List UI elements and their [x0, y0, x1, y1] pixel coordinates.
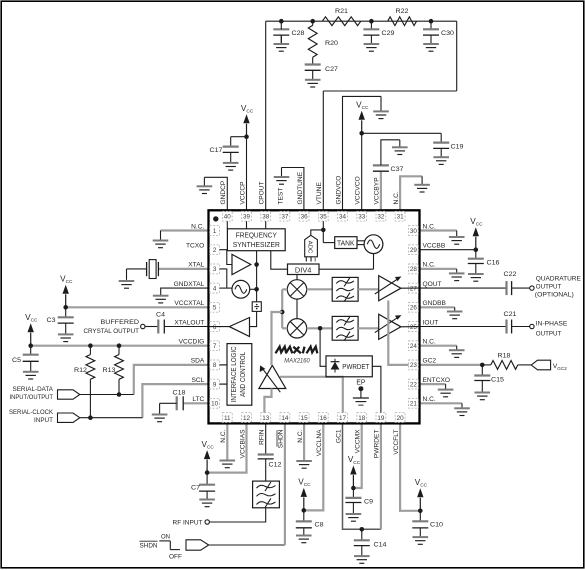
wire pin2 to buffer1 — [220, 250, 233, 265]
pin 17 name GC1 — [335, 429, 342, 443]
pin 34 name GNDVCO — [335, 176, 342, 205]
wire IOUT — [420, 326, 507, 328]
wire SCL — [142, 384, 208, 418]
ground — [449, 269, 465, 281]
svg-text:23: 23 — [410, 362, 418, 369]
ground — [152, 414, 168, 422]
pin 8 name SDA — [191, 358, 205, 365]
pin 40 name GNDCP — [220, 180, 227, 204]
pin 7 box — [210, 341, 220, 351]
resistor R12 — [74, 346, 95, 418]
capacitor C30 — [423, 21, 454, 37]
svg-text:1: 1 — [213, 228, 217, 235]
wire GC1 internal — [280, 377, 343, 413]
oscillator VCO — [364, 235, 383, 254]
pin 21 name N.C. — [423, 396, 436, 403]
block ADC — [305, 235, 318, 261]
wire PWRDET — [380, 423, 382, 529]
terminal QUADRATURE OUTPUT — [530, 276, 582, 299]
svg-text:24: 24 — [410, 343, 418, 350]
pin 1 indicator dot — [213, 216, 218, 221]
wire SDA — [134, 365, 209, 395]
capacitor C7 — [191, 473, 215, 492]
pin 35 name VTUNE — [316, 182, 323, 205]
svg-text:GNDTUNE: GNDTUNE — [297, 171, 304, 204]
svg-text:20: 20 — [397, 415, 405, 422]
pin 29 box — [409, 245, 419, 255]
svg-text:ENTCXO: ENTCXO — [423, 377, 450, 384]
ground — [274, 35, 290, 51]
svg-text:27: 27 — [410, 285, 418, 292]
svg-text:GC2: GC2 — [423, 358, 437, 365]
pin 15 name N.C. — [297, 429, 304, 442]
wire amp2 out — [401, 326, 420, 328]
node R13 top — [117, 343, 122, 348]
svg-text:N.C.: N.C. — [393, 191, 400, 204]
switch SHDN — [140, 534, 183, 561]
wire VCCBB — [420, 249, 476, 251]
pin 24 box — [409, 341, 419, 351]
svg-text:VCCBYP: VCCBYP — [374, 177, 381, 205]
terminal BUFFERED CRYSTAL OUTPUT — [84, 319, 146, 335]
wire buffer2 to pin6 — [209, 326, 230, 328]
wire to C19 — [362, 132, 442, 134]
svg-text:3: 3 — [213, 266, 217, 273]
pin 4 box — [210, 283, 220, 293]
svg-text:N.C.: N.C. — [191, 223, 204, 230]
svg-text:GC2: GC2 — [557, 366, 567, 371]
op-amp buffer2 XTALOUT — [229, 318, 249, 337]
svg-text:29: 29 — [410, 247, 418, 254]
pin 26 box — [409, 302, 419, 312]
svg-text:TCXO: TCXO — [186, 243, 204, 250]
pin 39 name VCCCP — [239, 181, 246, 205]
svg-text:10: 10 — [211, 401, 219, 408]
pin 33 box — [357, 211, 367, 221]
svg-text:OUTPUT: OUTPUT — [536, 284, 562, 291]
pin 20 name VCCFLT — [393, 430, 400, 455]
wire CPOUT loop top — [266, 20, 457, 22]
svg-text:VCCLNA: VCCLNA — [316, 429, 323, 456]
pin 9 name SCL — [191, 377, 204, 384]
pin 38 box — [261, 211, 271, 221]
capacitor C18 — [160, 390, 209, 414]
pin 11 name N.C. — [220, 429, 227, 442]
block INTERFACE LOGIC AND CONTROL — [227, 344, 252, 406]
mixer2 — [287, 319, 306, 338]
pin 27 box — [409, 283, 419, 293]
wire synth bus — [256, 251, 258, 302]
svg-text:VCCCP: VCCCP — [239, 181, 246, 205]
svg-text:C30: C30 — [441, 30, 454, 37]
pin 5 name VCCXTAL — [174, 300, 204, 307]
ground — [373, 96, 389, 118]
wire VCCMX — [353, 423, 361, 488]
svg-text:PWRDET: PWRDET — [374, 430, 381, 459]
pin 12 box — [242, 413, 252, 423]
svg-text:21: 21 — [410, 401, 418, 408]
amplifier VGA — [259, 365, 286, 392]
svg-text:INTERFACE LOGIC: INTERFACE LOGIC — [231, 346, 238, 402]
svg-text:IN-PHASE: IN-PHASE — [536, 321, 568, 328]
svg-text:34: 34 — [339, 214, 347, 221]
wire VTUNE vertical — [322, 91, 324, 210]
svg-text:17: 17 — [339, 415, 347, 422]
svg-text:C14: C14 — [374, 542, 387, 549]
wire pin40 stub — [226, 221, 228, 229]
ground — [475, 381, 491, 400]
svg-text:33: 33 — [358, 214, 366, 221]
pin 32 name VCCBYP — [374, 177, 381, 205]
ground — [274, 168, 290, 185]
capacitor C8 — [296, 510, 324, 528]
pin 9 box — [210, 379, 220, 389]
ground — [449, 346, 465, 358]
svg-text:VTUNE: VTUNE — [316, 182, 323, 205]
wire SHDN — [209, 423, 285, 545]
wire PWRDET to pin19 — [372, 366, 381, 412]
pin 8 box — [210, 360, 220, 370]
pin 23 name GC2 — [423, 358, 437, 365]
svg-text:8: 8 — [213, 362, 217, 369]
svg-text:39: 39 — [243, 214, 251, 221]
pin 19 box — [376, 413, 386, 423]
svg-text:C17: C17 — [210, 147, 223, 154]
svg-text:DIV4: DIV4 — [295, 267, 312, 274]
pin 25 name IOUT — [423, 319, 439, 326]
ground — [220, 460, 236, 468]
svg-text:GNDXTAL: GNDXTAL — [174, 281, 205, 288]
ground — [23, 361, 39, 379]
wire GNDTUNE — [282, 168, 304, 211]
pin 16 box — [318, 413, 328, 423]
wire DIV4 right — [319, 268, 374, 270]
filter2 bandpass — [332, 316, 358, 340]
svg-text:N.C.: N.C. — [297, 429, 304, 442]
pin 26 name GNDBB — [423, 300, 447, 307]
svg-text:GNDBB: GNDBB — [423, 300, 447, 307]
wire filter2 to amp2 — [358, 327, 379, 329]
wire pin4 to oscillator — [220, 287, 233, 289]
wire div to buffer2 — [250, 311, 257, 326]
pin 18 box — [357, 413, 367, 423]
ground — [364, 35, 380, 51]
pin 10 box — [210, 398, 220, 408]
svg-text:OUTPUT: OUTPUT — [536, 331, 562, 338]
crystal — [127, 260, 159, 279]
pin 3 name XTAL — [188, 262, 204, 269]
node C28 junction — [279, 19, 284, 24]
pin 1 box — [210, 226, 220, 236]
pin 34 box — [338, 211, 348, 221]
node R12 top — [88, 343, 93, 348]
power VCC at VCCVCO — [356, 101, 369, 136]
power VCC at VCCFLT — [415, 478, 428, 513]
ground — [346, 503, 362, 522]
pin 16 name VCCLNA — [316, 429, 323, 456]
wire to ADC — [311, 230, 324, 235]
svg-text:TANK: TANK — [337, 241, 355, 248]
svg-text:40: 40 — [224, 214, 232, 221]
divider DIV4 — [288, 264, 320, 275]
svg-text:C28: C28 — [292, 30, 305, 37]
wire filter1 to amp1 — [358, 288, 379, 290]
pin 22 name ENTCXO — [423, 377, 450, 384]
wire NC pin21 — [420, 402, 463, 404]
capacitor C4 — [145, 312, 209, 334]
wire VCCVCO — [361, 133, 363, 210]
svg-text:C21: C21 — [504, 311, 517, 318]
ground — [449, 231, 465, 245]
pin 12 name VCCBIAS — [239, 429, 246, 459]
wire QOUT — [420, 287, 507, 289]
wire pin39 stub — [246, 221, 248, 229]
svg-text:VCCDIG: VCCDIG — [179, 339, 205, 346]
svg-text:CRYSTAL OUTPUT: CRYSTAL OUTPUT — [84, 328, 140, 335]
pin 2 box — [210, 245, 220, 255]
wire GC1 — [343, 423, 381, 529]
pin 14 box — [280, 413, 290, 423]
ground EP — [353, 389, 369, 406]
svg-text:22: 22 — [410, 381, 418, 388]
svg-text:C7: C7 — [191, 485, 200, 492]
svg-text:38: 38 — [262, 214, 270, 221]
capacitor C28 — [273, 21, 304, 44]
svg-text:7: 7 — [213, 343, 217, 350]
svg-text:C18: C18 — [173, 390, 186, 397]
wire loop right edge — [456, 21, 458, 91]
svg-text:TEST: TEST — [278, 188, 285, 205]
node C14 junction — [360, 527, 365, 532]
svg-text:XTALOUT: XTALOUT — [174, 319, 204, 326]
svg-text:SERIAL-CLOCK: SERIAL-CLOCK — [9, 409, 53, 416]
svg-text:RFIN: RFIN — [259, 429, 266, 445]
wire pin3 stub — [220, 269, 227, 288]
pin 6 name XTALOUT — [174, 319, 204, 326]
wire NC pin31 — [400, 176, 422, 210]
ground — [433, 148, 449, 164]
pin 18 name VCCMX — [355, 429, 362, 453]
svg-text:35: 35 — [320, 214, 328, 221]
wire synth to DIV4 — [271, 251, 288, 270]
wire VCCCP — [246, 137, 248, 211]
wire tank to VCO — [357, 241, 364, 245]
pin 13 name RFIN — [259, 429, 266, 445]
svg-text:C16: C16 — [487, 260, 500, 267]
svg-text:31: 31 — [397, 214, 405, 221]
terminal SERIAL-CLOCK INPUT — [9, 409, 80, 424]
wire VCCBIAS — [207, 423, 246, 472]
pin 19 name PWRDET — [374, 430, 381, 459]
svg-text:VCCXTAL: VCCXTAL — [174, 300, 204, 307]
filter1 bandpass — [332, 277, 358, 301]
svg-text:INPUT/OUTPUT: INPUT/OUTPUT — [10, 394, 54, 401]
ground — [413, 528, 429, 544]
capacitor C10 — [412, 511, 443, 529]
pin 27 name QOUT — [423, 281, 442, 288]
capacitor C5 — [12, 346, 39, 364]
svg-text:C9: C9 — [364, 499, 373, 506]
svg-text:32: 32 — [377, 214, 385, 221]
ground — [454, 403, 470, 415]
svg-text:(OPTIONAL): (OPTIONAL) — [535, 292, 574, 299]
svg-text:VCCVCO: VCCVCO — [355, 176, 362, 204]
pin 11 box — [222, 413, 232, 423]
wire GNDVCO — [343, 96, 382, 210]
ground — [354, 546, 370, 564]
mixer1 — [287, 280, 306, 299]
ground — [414, 176, 430, 192]
svg-text:ADC: ADC — [306, 241, 312, 254]
ground — [197, 177, 213, 193]
svg-text:R13: R13 — [103, 367, 116, 374]
svg-text:FREQUENCY: FREQUENCY — [236, 232, 277, 239]
capacitor C14 — [354, 529, 387, 548]
pin 13 box — [261, 413, 271, 423]
svg-text:R18: R18 — [498, 353, 511, 360]
op IC body MAX2160 — [209, 210, 420, 423]
resistor R20 — [308, 21, 338, 57]
svg-text:30: 30 — [410, 228, 418, 235]
capacitor C29 — [363, 21, 394, 37]
svg-text:RF INPUT: RF INPUT — [173, 520, 203, 527]
resistor R13 — [103, 346, 124, 395]
wire SERIAL-DATA — [80, 394, 134, 396]
filter RF bandpass — [253, 459, 280, 508]
node RF split — [280, 310, 285, 315]
ground — [468, 264, 484, 282]
pin 7 name VCCDIG — [179, 339, 205, 346]
svg-text:QUADRATURE: QUADRATURE — [536, 276, 581, 283]
svg-text:4: 4 — [213, 285, 217, 292]
wire DIV4 to mixer1 — [296, 275, 298, 280]
node oscillator out — [254, 287, 259, 292]
label MAX2160 — [284, 357, 310, 364]
svg-text:C10: C10 — [430, 522, 443, 529]
wire VCCFLT — [400, 423, 420, 510]
power VCC at VCCXTAL — [60, 275, 73, 310]
wire mixer1 to mixer2 — [296, 299, 298, 319]
wire osc to bus — [250, 288, 257, 290]
ground — [296, 460, 312, 468]
svg-text:C19: C19 — [451, 144, 464, 151]
svg-text:6: 6 — [213, 324, 217, 331]
svg-text:VCCBB: VCCBB — [423, 243, 446, 250]
node VTUNE junction — [321, 228, 326, 233]
wire pin13 to VGA — [264, 389, 271, 413]
svg-text:AND CONTROL: AND CONTROL — [240, 352, 247, 397]
pin 37 box — [280, 211, 290, 221]
pin 28 box — [409, 264, 419, 274]
ground — [305, 70, 321, 87]
svg-text:N.C.: N.C. — [423, 339, 436, 346]
ground — [392, 140, 408, 155]
svg-text:N.C.: N.C. — [423, 262, 436, 269]
node R13 bottom — [117, 392, 122, 397]
capacitor C37 — [373, 165, 404, 210]
svg-text:SCL: SCL — [191, 377, 204, 384]
wire C37 to ground — [381, 140, 400, 166]
amplifier QOUT — [375, 276, 402, 301]
capacitor C27 — [305, 57, 339, 73]
terminal VGC2 — [531, 360, 567, 371]
wire crystal to ground — [126, 269, 128, 280]
pin 35 box — [318, 211, 328, 221]
pin 15 box — [299, 413, 309, 423]
ground — [199, 491, 215, 507]
svg-text:C15: C15 — [491, 377, 504, 384]
svg-text:SHDN: SHDN — [278, 429, 285, 448]
wire RF input — [209, 508, 265, 522]
svg-text:C5: C5 — [12, 357, 21, 364]
svg-text:C4: C4 — [156, 312, 165, 319]
svg-text:PWRDET: PWRDET — [342, 364, 370, 371]
svg-text:SHDN: SHDN — [140, 543, 158, 550]
wire NC pin15 — [303, 423, 305, 460]
pin 31 box — [395, 211, 405, 221]
power VCC at VCCDIG — [25, 313, 38, 348]
capacitor C9 — [345, 488, 373, 506]
terminal SERIAL-DATA INPUT/OUTPUT — [10, 386, 80, 401]
wire GNDBB — [420, 306, 455, 308]
svg-text:GNDVCO: GNDVCO — [335, 176, 342, 205]
svg-text:C22: C22 — [504, 271, 517, 278]
node R12 bottom — [88, 415, 93, 420]
svg-text:N.C.: N.C. — [423, 223, 436, 230]
pin 24 name N.C. — [423, 339, 436, 346]
svg-text:14: 14 — [281, 415, 289, 422]
svg-text:C27: C27 — [325, 66, 338, 73]
wire mixer2 to filter2 — [307, 327, 333, 329]
svg-text:25: 25 — [410, 324, 418, 331]
wire SERIAL-CLOCK — [80, 417, 143, 419]
wire mixer2 to PWRDET — [320, 328, 326, 366]
pin 22 box — [409, 379, 419, 389]
svg-text:37: 37 — [281, 214, 289, 221]
capacitor C17 — [210, 137, 247, 154]
svg-text:18: 18 — [358, 415, 366, 422]
svg-text:SERIAL-DATA: SERIAL-DATA — [13, 386, 54, 393]
ground — [153, 295, 169, 303]
wire CPOUT vertical — [265, 21, 267, 210]
svg-text:11: 11 — [224, 415, 231, 422]
pin 31 name N.C. — [393, 191, 400, 204]
svg-text:SYNTHESIZER: SYNTHESIZER — [233, 242, 280, 249]
pin 36 box — [299, 211, 309, 221]
block FREQUENCY SYNTHESIZER — [227, 229, 285, 251]
ground — [153, 231, 169, 248]
node C15 junction — [480, 363, 485, 368]
pin 30 box — [409, 226, 419, 236]
svg-text:SDA: SDA — [191, 358, 205, 365]
svg-text:26: 26 — [410, 305, 418, 312]
pin 4 name GNDXTAL — [174, 281, 205, 288]
svg-text:2: 2 — [213, 247, 217, 254]
pin 6 box — [210, 322, 220, 332]
svg-text:EP: EP — [356, 379, 365, 386]
wire GC2 — [420, 364, 483, 366]
terminal RF INPUT — [173, 520, 210, 527]
terminal IN-PHASE OUTPUT — [530, 321, 568, 338]
node C30 junction — [429, 19, 434, 24]
svg-text:INPUT: INPUT — [34, 417, 53, 424]
svg-text:VCCMX: VCCMX — [355, 429, 362, 453]
svg-text:16: 16 — [320, 415, 328, 422]
wire VCCLNA — [304, 423, 324, 510]
pin 33 name VCCVCO — [355, 176, 362, 204]
wire GC2 control — [388, 301, 408, 365]
block PWRDET — [326, 356, 372, 377]
